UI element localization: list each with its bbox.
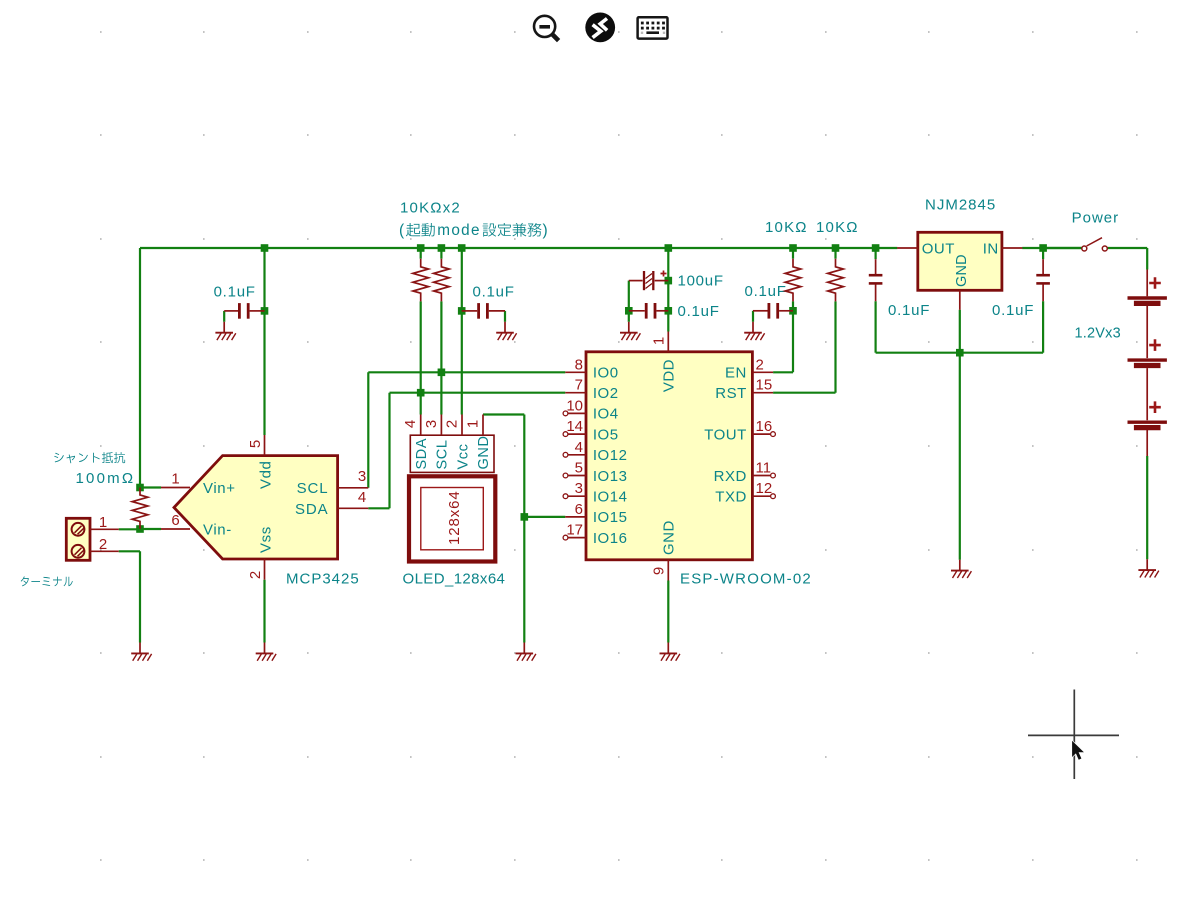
wire NJM GND down to ground	[959, 310, 961, 560]
battery cell 1	[1128, 296, 1167, 299]
svg-text:OUT: OUT	[922, 240, 955, 257]
wire MCP SDA up	[388, 393, 390, 509]
svg-text:0.1uF: 0.1uF	[473, 284, 515, 301]
NJM OUT pin	[897, 247, 918, 249]
svg-text:SDA: SDA	[295, 501, 329, 518]
capacitor C5 100uF electrolytic	[644, 271, 653, 290]
ESP pin 2 EN	[752, 371, 773, 373]
svg-text:mode: mode	[437, 222, 480, 239]
svg-text:IO0: IO0	[593, 365, 619, 382]
capacitor C3 0.1uF	[646, 303, 655, 319]
svg-text:Vcc: Vcc	[455, 444, 471, 470]
wire R-SCL to OLED SCL pin	[440, 301, 442, 414]
capacitor C6 0.1uF	[869, 275, 883, 283]
ground C2	[496, 322, 516, 340]
label シャント抵抗	[54, 452, 125, 463]
ESP pin 7 IO2	[565, 392, 586, 394]
capacitor C4 0.1uF	[769, 303, 778, 319]
ESP pin 4 IO12	[563, 452, 568, 457]
wire rail to ESP VDD pin	[667, 248, 669, 332]
ground OLED	[516, 643, 536, 661]
battery cell 2	[1128, 358, 1167, 361]
node OLED-GND / ESP IO15	[521, 513, 529, 521]
svg-text:TOUT: TOUT	[704, 426, 747, 443]
svg-text:Vdd: Vdd	[258, 461, 275, 490]
node C3 left / 100uF left	[625, 307, 633, 315]
svg-text:SCL: SCL	[297, 480, 329, 497]
svg-text:10KΩ: 10KΩ	[765, 219, 808, 236]
svg-text:OLED_128x64: OLED_128x64	[403, 571, 506, 588]
svg-text:100mΩ: 100mΩ	[76, 470, 136, 487]
capacitor C2 0.1uF	[479, 303, 488, 319]
ESP pin 6 IO15	[565, 516, 586, 518]
node rail @ OLED Vcc column	[458, 244, 466, 252]
svg-text:17: 17	[566, 522, 583, 539]
svg-text:): )	[543, 222, 548, 239]
svg-text:1.2Vx3: 1.2Vx3	[1075, 326, 1121, 342]
svg-text:IO14: IO14	[593, 489, 628, 506]
wire switch to battery	[1107, 247, 1147, 249]
node C3 @ VDD column	[665, 307, 673, 315]
wire MCP Vss to ground	[263, 580, 265, 643]
svg-text:10: 10	[566, 397, 583, 414]
display OLED_128x64 screen body	[409, 476, 495, 561]
MCP3425 pin 5 Vdd	[264, 435, 266, 456]
OLED pin 3 SCL	[440, 415, 442, 436]
wire RST up to R-RST	[834, 301, 836, 392]
MCP3425 pin 1 Vin+	[161, 487, 190, 489]
svg-text:0.1uF: 0.1uF	[214, 284, 256, 301]
ground C4	[744, 322, 764, 340]
svg-text:1: 1	[465, 420, 482, 428]
ground battery	[1138, 559, 1158, 577]
svg-text:IO15: IO15	[593, 509, 628, 526]
svg-text:EN: EN	[725, 365, 747, 382]
wire SDA net to ESP IO2	[390, 392, 566, 394]
icon remote-desktop	[585, 13, 615, 43]
NJM IN pin	[1002, 247, 1023, 249]
svg-text:1: 1	[99, 514, 107, 531]
wire C6 down	[874, 301, 876, 353]
OLED pin 1 GND	[482, 415, 484, 436]
node rail @ MCP Vdd column	[261, 244, 269, 252]
svg-text:10KΩ: 10KΩ	[816, 219, 859, 236]
node SCL net @ pullup column	[438, 369, 446, 377]
resistor R-SCL 10K	[434, 259, 450, 302]
svg-text:IO5: IO5	[593, 426, 619, 443]
wire C6-C7 bottom bus	[876, 352, 1044, 354]
svg-text:ESP-WROOM-02: ESP-WROOM-02	[680, 571, 812, 588]
battery cell 3	[1128, 421, 1167, 424]
node rail @ NJM IN cap	[1039, 244, 1047, 252]
terminal pin 2	[90, 550, 119, 552]
svg-text:GND: GND	[954, 254, 970, 287]
ground ESP	[660, 643, 680, 661]
crosshair cursor	[1028, 690, 1119, 780]
svg-text:0.1uF: 0.1uF	[888, 302, 930, 319]
wire R-SDA to OLED SDA pin	[420, 301, 422, 414]
switch SW1 Power	[1082, 238, 1108, 251]
svg-text:(: (	[399, 222, 405, 239]
ground C3/100uF	[620, 322, 640, 340]
svg-text:2: 2	[756, 356, 764, 373]
display OLED_128x64 pin header box	[410, 435, 494, 472]
svg-text:1: 1	[171, 471, 179, 488]
svg-text:SDA: SDA	[414, 438, 430, 470]
svg-text:12: 12	[756, 480, 773, 497]
ESP pin 10 IO4	[563, 411, 568, 416]
wire terminal pin2 down to ground	[139, 551, 141, 642]
node rail @ R-SDA pullup	[417, 244, 425, 252]
svg-text:0.1uF: 0.1uF	[745, 283, 787, 300]
svg-text:9: 9	[651, 567, 668, 575]
node rail @ NJM OUT cap	[872, 244, 880, 252]
ESP pin 15 RST	[752, 392, 773, 394]
ESP pin 17 IO16	[563, 535, 568, 540]
svg-text:16: 16	[756, 418, 773, 435]
ground terminal pin2	[131, 643, 151, 661]
svg-text:Vin-: Vin-	[203, 522, 232, 539]
node NJM GND bus	[956, 349, 964, 357]
svg-text:NJM2845: NJM2845	[925, 197, 996, 214]
op-amp/ADC U2 MCP3425 body	[174, 456, 338, 559]
grid dots	[100, 32, 1138, 860]
label ターミナル	[21, 576, 73, 586]
OLED pin 2 Vcc	[461, 415, 463, 436]
svg-text:6: 6	[171, 512, 179, 529]
OLED pin 4 SDA	[420, 415, 422, 436]
svg-text:2: 2	[99, 536, 107, 553]
node C2 @ OLED Vcc column	[458, 307, 466, 315]
wire terminal pin2 right	[119, 550, 140, 552]
svg-text:TXD: TXD	[715, 489, 747, 506]
wire battery - to ground	[1146, 456, 1148, 559]
MCP3425 pin 3 SCL	[338, 487, 369, 489]
ESP pin 12 TXD	[752, 495, 770, 497]
wire SCL net to ESP IO0	[368, 371, 565, 373]
wire EN up to R-EN	[792, 301, 794, 372]
ESP pin 11 RXD	[752, 475, 770, 477]
wire node A to Vin+	[140, 486, 161, 488]
resistor R-SDA 10K	[413, 259, 429, 302]
ESP pin 8 IO0	[565, 371, 586, 373]
wire OLED GND right	[483, 413, 524, 415]
resistor shunt 100mΩ	[132, 488, 148, 529]
svg-text:2: 2	[444, 420, 461, 428]
battery BT1 1.2Vx3	[1146, 270, 1148, 297]
svg-text:7: 7	[575, 377, 583, 394]
ground MCP Vss	[256, 643, 276, 661]
wire C1 left to ground	[223, 311, 225, 322]
wire rail to OLED Vcc pin	[461, 248, 463, 415]
svg-text:0.1uF: 0.1uF	[992, 302, 1034, 319]
connector J1 terminal block	[66, 518, 90, 560]
svg-text:5: 5	[247, 440, 264, 448]
ground C1	[215, 322, 235, 340]
wire MCP SDA right	[368, 507, 389, 509]
svg-text:4: 4	[358, 489, 366, 506]
node C1 to Vdd column	[261, 307, 269, 315]
node rail @ R-SCL pullup	[438, 244, 446, 252]
node SDA net @ pullup column	[417, 389, 425, 397]
regulator U3 NJM2845 body	[918, 232, 1002, 290]
wire down to battery +	[1146, 248, 1148, 270]
wire OLED GND down to ground	[523, 415, 525, 643]
svg-text:IN: IN	[983, 240, 999, 257]
icon zoom-out magnifier	[534, 16, 559, 41]
IC U1 ESP-WROOM-02 body	[586, 352, 752, 560]
wire C2 right to ground	[504, 311, 506, 322]
svg-text:VDD: VDD	[661, 359, 678, 392]
terminal pin 1	[90, 528, 119, 530]
svg-text:15: 15	[756, 377, 773, 394]
svg-text:3: 3	[423, 420, 440, 428]
svg-text:2: 2	[247, 571, 264, 579]
svg-text:MCP3425: MCP3425	[286, 571, 360, 588]
svg-text:3: 3	[358, 468, 366, 485]
icon keyboard	[638, 17, 668, 38]
MCP3425 pin 4 SDA	[338, 507, 369, 509]
svg-text:3: 3	[575, 480, 583, 497]
MCP3425 pin 2 Vss	[264, 559, 266, 580]
svg-text:11: 11	[756, 460, 772, 477]
wire C3 left to ground	[628, 311, 630, 322]
MCP3425 pin 6 Vin-	[161, 528, 190, 530]
node rail @ R-RST pullup	[832, 244, 840, 252]
svg-text:10KΩx2: 10KΩx2	[400, 200, 461, 217]
svg-text:IO16: IO16	[593, 530, 628, 547]
wire to ESP IO15	[524, 516, 565, 518]
ground NJM	[951, 560, 971, 578]
svg-text:4: 4	[402, 420, 419, 428]
svg-text:1: 1	[651, 337, 668, 345]
wire IN to switch	[1043, 247, 1082, 249]
wire ESP EN right	[773, 371, 793, 373]
NJM GND pin	[959, 290, 961, 310]
svg-text:5: 5	[575, 460, 583, 477]
wire node B to Vin-	[140, 528, 161, 530]
mouse pointer	[1072, 741, 1084, 760]
svg-text:IO12: IO12	[593, 447, 628, 464]
wire 100uF left leg down	[628, 281, 630, 311]
wire rail down to MCP3425 Vdd pin	[263, 248, 265, 435]
ESP pin 14 IO5	[563, 432, 568, 437]
svg-text:IO2: IO2	[593, 385, 619, 402]
svg-text:14: 14	[566, 418, 583, 435]
svg-text:Power: Power	[1072, 210, 1120, 227]
wire C4 left to ground	[752, 311, 754, 322]
wire NJM IN to switch node	[1022, 247, 1082, 249]
node B (shunt bottom / Vin- / terminal 1)	[136, 525, 144, 533]
resistor R-EN 10K	[785, 259, 801, 302]
svg-text:128x64: 128x64	[446, 490, 463, 545]
svg-text:RST: RST	[715, 385, 747, 402]
svg-text:IO13: IO13	[593, 468, 628, 485]
svg-text:Vin+: Vin+	[203, 480, 236, 497]
OLED inner screen rect	[421, 488, 484, 550]
svg-text:Vss: Vss	[258, 526, 275, 553]
svg-text:SCL: SCL	[435, 439, 451, 469]
node C4 / EN net	[789, 307, 797, 315]
ESP pin 1 VDD (top)	[667, 332, 669, 352]
wire left drop to shunt top / Vin+ node	[139, 248, 141, 488]
ESP pin 9 GND (bottom)	[667, 560, 669, 581]
svg-text:6: 6	[575, 501, 583, 518]
wire terminal pin1 to node B	[119, 528, 140, 530]
ESP pin 3 IO14	[563, 494, 568, 499]
svg-text:IO4: IO4	[593, 406, 619, 423]
svg-text:RXD: RXD	[714, 468, 747, 485]
svg-text:0.1uF: 0.1uF	[678, 303, 720, 320]
svg-text:8: 8	[575, 356, 583, 373]
wire VCC top rail	[140, 247, 897, 249]
wire ESP GND to ground	[667, 581, 669, 643]
ESP pin 5 IO13	[563, 473, 568, 478]
resistor R-RST 10K	[828, 259, 844, 302]
capacitor C7 0.1uF	[1036, 275, 1050, 283]
wire ESP RST right	[773, 392, 835, 394]
node 100uF @ VDD column	[665, 277, 673, 285]
wire C7 down	[1042, 301, 1044, 353]
wire MCP SCL up	[367, 372, 369, 488]
svg-text:100uF: 100uF	[678, 273, 724, 290]
node rail @ R-EN pullup	[789, 244, 797, 252]
svg-text:4: 4	[575, 439, 583, 456]
ESP pin 16 TOUT	[752, 433, 770, 435]
capacitor C1 0.1uF	[239, 303, 248, 319]
svg-text:GND: GND	[476, 435, 492, 469]
node rail @ ESP VDD column	[665, 244, 673, 252]
node A (shunt top / Vin+)	[136, 484, 144, 492]
svg-text:GND: GND	[661, 520, 678, 555]
